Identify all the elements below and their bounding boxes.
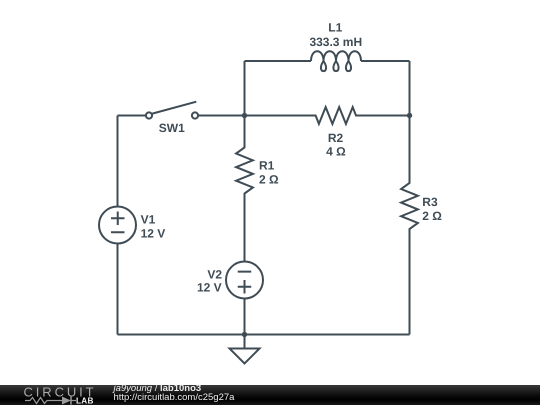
svg-text:12 V: 12 V [197, 281, 222, 295]
svg-text:4 Ω: 4 Ω [326, 145, 346, 159]
svg-text:R2: R2 [328, 131, 344, 145]
svg-text:2 Ω: 2 Ω [422, 209, 442, 223]
svg-text:L1: L1 [328, 21, 342, 35]
svg-text:V2: V2 [207, 268, 222, 282]
svg-text:R1: R1 [259, 159, 275, 173]
svg-text:LAB: LAB [76, 397, 94, 405]
svg-text:12 V: 12 V [141, 227, 166, 241]
svg-text:SW1: SW1 [159, 121, 185, 135]
svg-text:2 Ω: 2 Ω [259, 173, 279, 187]
svg-text:V1: V1 [141, 213, 156, 227]
svg-text:R3: R3 [422, 195, 438, 209]
svg-text:333.3 mH: 333.3 mH [309, 35, 362, 49]
